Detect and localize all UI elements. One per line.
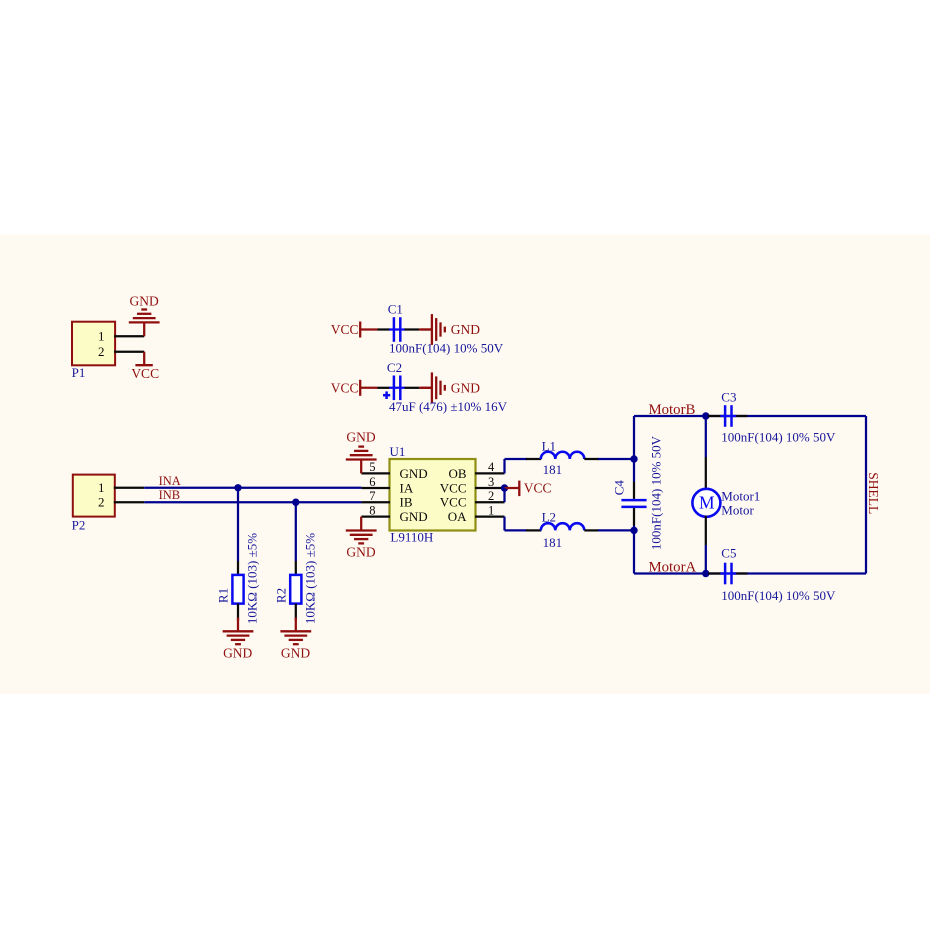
capacitor C1 <box>389 328 405 330</box>
svg-text:2: 2 <box>488 489 494 503</box>
junction node MotorB/C3 <box>702 412 709 419</box>
connector P1 <box>72 322 115 366</box>
ground symbol below U1 pin8 <box>360 517 362 531</box>
VCC port bar for C2 <box>359 380 361 396</box>
ground symbol right of C1 <box>420 328 432 330</box>
resistor R1 <box>232 575 243 604</box>
L2 right stub (black) <box>584 529 599 531</box>
wire C2 to GND (black) <box>405 387 420 389</box>
svg-text:OB: OB <box>448 466 466 481</box>
svg-text:1: 1 <box>488 503 494 517</box>
op-amp U1 body <box>390 459 476 531</box>
svg-text:Motor: Motor <box>721 503 754 518</box>
svg-text:R1: R1 <box>216 588 231 603</box>
svg-text:L2: L2 <box>542 510 556 525</box>
svg-text:GND: GND <box>129 294 158 309</box>
wire P1 pin2 <box>114 351 144 353</box>
svg-text:GND: GND <box>346 430 375 445</box>
wire C1 to GND (black) <box>405 328 420 330</box>
svg-text:GND: GND <box>400 466 428 481</box>
wire left vertical bus upper <box>633 416 635 482</box>
svg-text:VCC: VCC <box>331 322 359 337</box>
svg-text:C4: C4 <box>611 480 626 496</box>
svg-text:VCC: VCC <box>331 381 359 396</box>
wire P2 pin1 (black) <box>114 487 144 489</box>
wire pin1 to L2 <box>505 529 528 531</box>
wire pin3 to VCC port <box>505 487 520 489</box>
wire motor to MotorA (navy) <box>705 545 707 574</box>
VCC stem below P1 <box>143 352 145 366</box>
junction node INB/R2 <box>292 499 299 506</box>
svg-text:100nF(104) 10% 50V: 100nF(104) 10% 50V <box>389 341 504 356</box>
svg-text:IB: IB <box>400 495 413 510</box>
U1 pin 7 stub <box>361 501 390 503</box>
resistor R2 <box>290 575 301 604</box>
connector P2 <box>73 475 115 517</box>
wire right vertical SHELL <box>865 416 867 574</box>
capacitor C3 <box>720 415 736 417</box>
L2 left stub (black) <box>526 529 541 531</box>
U1 pin 6 stub <box>361 487 390 489</box>
wire C2 to GND (maroon) <box>419 387 432 389</box>
svg-text:SHELL: SHELL <box>866 472 881 514</box>
wire C1 to GND (maroon) <box>419 328 432 330</box>
capacitor C2 <box>389 387 405 389</box>
wire left vertical bus lower <box>633 526 635 574</box>
wire R2 to GND (black) <box>295 604 297 621</box>
svg-text:P1: P1 <box>72 365 86 380</box>
VCC port bar at U1 pin3 <box>518 481 520 497</box>
svg-text:INA: INA <box>159 474 181 488</box>
junction node U1 pin3 VCC <box>501 484 508 491</box>
svg-text:181: 181 <box>543 535 563 550</box>
svg-text:M: M <box>699 493 715 513</box>
svg-text:1: 1 <box>98 328 105 343</box>
svg-text:VCC: VCC <box>440 481 467 496</box>
wire to R1 (black) <box>237 561 239 576</box>
wire P2 pin2 (black) <box>114 501 144 503</box>
svg-text:INB: INB <box>159 488 181 502</box>
inductor L2 <box>541 523 585 530</box>
svg-text:MotorA: MotorA <box>649 559 697 575</box>
motor top stub (black) <box>705 457 707 490</box>
svg-text:R2: R2 <box>273 588 288 603</box>
C3 left stub (black) <box>708 415 724 417</box>
svg-text:GND: GND <box>451 322 480 337</box>
svg-text:2: 2 <box>98 494 105 509</box>
wire pin1 down <box>503 517 505 531</box>
U1 pin 3 stub <box>475 487 505 489</box>
svg-text:4: 4 <box>488 460 495 474</box>
svg-text:VCC: VCC <box>440 495 467 510</box>
U1 pin 4 stub <box>475 472 505 474</box>
svg-text:P2: P2 <box>72 517 86 532</box>
svg-text:1: 1 <box>98 480 105 495</box>
U1 pin 1 stub <box>475 515 505 517</box>
C4 top stub (black) <box>633 482 635 499</box>
wire L2 to node <box>598 529 634 531</box>
VCC port bar for C1 <box>359 322 361 338</box>
net MotorB wire <box>634 415 866 417</box>
wire VCC to C1 (maroon) <box>360 328 377 330</box>
capacitor C5 <box>720 572 736 574</box>
svg-text:C2: C2 <box>387 360 402 375</box>
wire R1 to GND (black) <box>237 604 239 621</box>
svg-text:7: 7 <box>369 489 375 503</box>
junction node L2/bus <box>630 527 637 534</box>
svg-text:GND: GND <box>281 645 310 660</box>
motor bottom stub (black) <box>705 516 707 545</box>
ground symbol right of C2 <box>420 387 432 389</box>
svg-text:47uF (476) ±10% 16V: 47uF (476) ±10% 16V <box>389 399 508 414</box>
svg-text:100nF(104) 10% 50V: 100nF(104) 10% 50V <box>721 588 836 603</box>
svg-text:OA: OA <box>448 509 467 524</box>
svg-text:GND: GND <box>400 509 428 524</box>
net INA wire <box>144 487 361 489</box>
wire INA to R1 (navy) <box>237 488 239 561</box>
svg-text:10KΩ (103) ±5%: 10KΩ (103) ±5% <box>245 533 260 624</box>
wire pin2 to pin3 node <box>503 488 505 502</box>
wire P1 pin1 <box>114 335 144 337</box>
svg-text:GND: GND <box>451 381 480 396</box>
net INB wire <box>144 501 361 503</box>
wire L1 to node <box>598 458 634 460</box>
svg-text:U1: U1 <box>390 444 406 459</box>
ground symbol below R1 <box>237 617 239 631</box>
svg-text:C1: C1 <box>388 302 403 317</box>
schematic sheet background <box>0 235 930 695</box>
U1 pin 5 stub <box>361 472 390 474</box>
junction node INA/R1 <box>234 484 241 491</box>
wire to C2 (black) <box>378 387 391 389</box>
svg-text:8: 8 <box>369 503 375 517</box>
wire pin4 up <box>503 459 505 473</box>
C2 plus sign <box>383 394 390 397</box>
junction node L1/bus <box>630 455 637 462</box>
C5 left stub (black) <box>708 572 724 574</box>
net MotorA wire <box>634 572 866 574</box>
svg-text:MotorB: MotorB <box>649 402 696 418</box>
C5 right stub (black) <box>732 572 748 574</box>
ground symbol above U1 pin5 <box>360 460 362 474</box>
svg-text:6: 6 <box>369 475 375 489</box>
svg-text:L9110H: L9110H <box>390 530 433 545</box>
svg-text:VCC: VCC <box>524 481 552 496</box>
capacitor C4 <box>621 499 646 502</box>
wire VCC to C2 (maroon) <box>360 387 377 389</box>
svg-text:100nF(104) 10% 50V: 100nF(104) 10% 50V <box>649 435 664 550</box>
wire MotorB to motor (navy) <box>705 416 707 457</box>
svg-text:GND: GND <box>346 545 375 560</box>
junction node MotorA/C5 <box>702 570 709 577</box>
svg-text:Motor1: Motor1 <box>721 488 760 503</box>
svg-text:181: 181 <box>543 462 563 477</box>
ground symbol above P1 <box>143 322 145 336</box>
svg-text:VCC: VCC <box>131 366 159 381</box>
U1 pin 2 stub <box>475 501 505 503</box>
svg-text:3: 3 <box>488 475 494 489</box>
svg-text:100nF(104) 10% 50V: 100nF(104) 10% 50V <box>721 430 836 445</box>
C4 bottom stub (black) <box>633 508 635 525</box>
svg-text:2: 2 <box>98 344 105 359</box>
svg-text:L1: L1 <box>542 439 556 454</box>
svg-text:C3: C3 <box>721 390 736 405</box>
svg-text:GND: GND <box>223 645 252 660</box>
svg-text:IA: IA <box>400 481 414 496</box>
svg-text:10KΩ (103) ±5%: 10KΩ (103) ±5% <box>302 533 317 624</box>
inductor L1 <box>541 452 585 459</box>
wire pin4 to L1 <box>505 458 528 460</box>
motor Motor1 circle <box>692 489 720 517</box>
U1 pin 8 stub <box>361 515 390 517</box>
wire to R2 (black) <box>295 561 297 576</box>
svg-text:C5: C5 <box>721 546 736 561</box>
L1 left stub (black) <box>526 458 541 460</box>
C3 right stub (black) <box>732 415 748 417</box>
VCC bar symbol below P1 <box>135 364 152 366</box>
ground symbol below R2 <box>295 617 297 631</box>
L1 right stub (black) <box>584 458 599 460</box>
wire to C1 (black) <box>378 328 391 330</box>
svg-text:5: 5 <box>369 460 375 474</box>
wire INB to R2 (navy) <box>295 502 297 561</box>
